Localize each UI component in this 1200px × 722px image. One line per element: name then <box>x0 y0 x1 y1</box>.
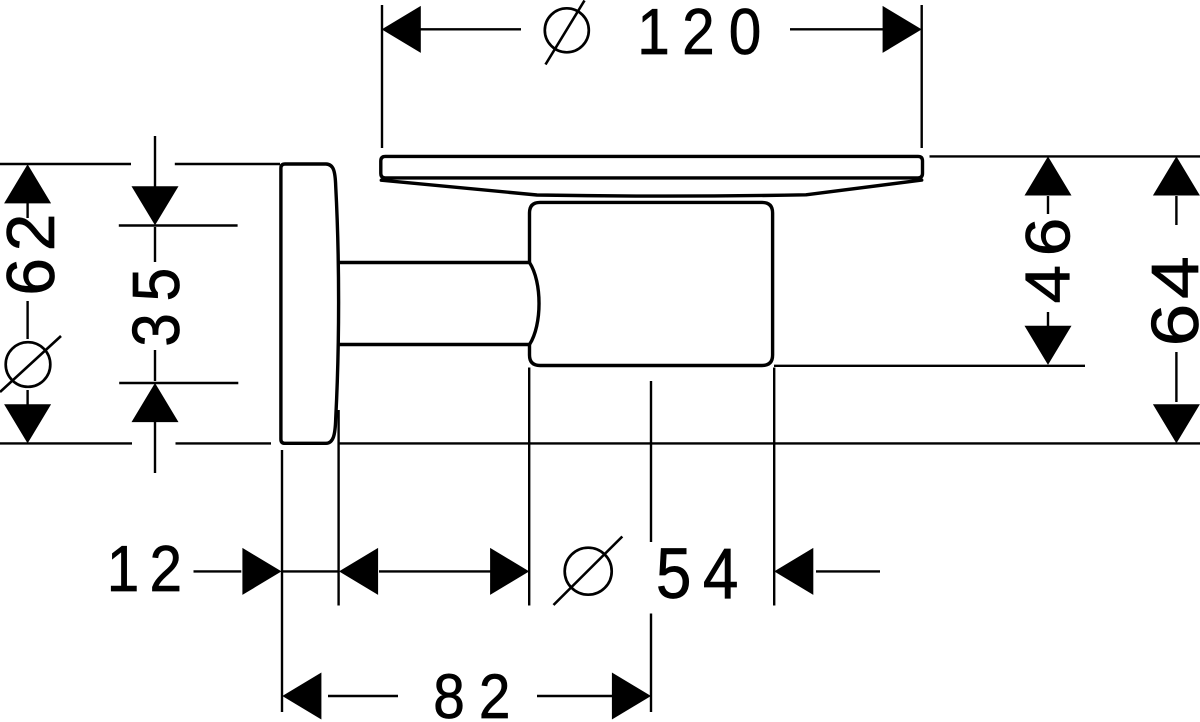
svg-text:2: 2 <box>682 0 715 69</box>
svg-text:1: 1 <box>637 0 670 69</box>
svg-text:0: 0 <box>729 0 762 69</box>
svg-text:3: 3 <box>118 313 194 347</box>
svg-text:2: 2 <box>479 661 511 722</box>
svg-text:8: 8 <box>433 661 465 722</box>
svg-text:4: 4 <box>1013 265 1083 304</box>
svg-text:4: 4 <box>703 535 739 614</box>
svg-text:2: 2 <box>0 214 69 252</box>
svg-text:1: 1 <box>107 533 140 606</box>
svg-text:5: 5 <box>118 268 194 302</box>
svg-text:6: 6 <box>1013 218 1083 257</box>
svg-text:6: 6 <box>1139 304 1200 347</box>
svg-text:2: 2 <box>150 533 183 606</box>
svg-text:5: 5 <box>656 535 692 614</box>
svg-text:4: 4 <box>1139 256 1200 299</box>
svg-text:6: 6 <box>0 258 69 296</box>
